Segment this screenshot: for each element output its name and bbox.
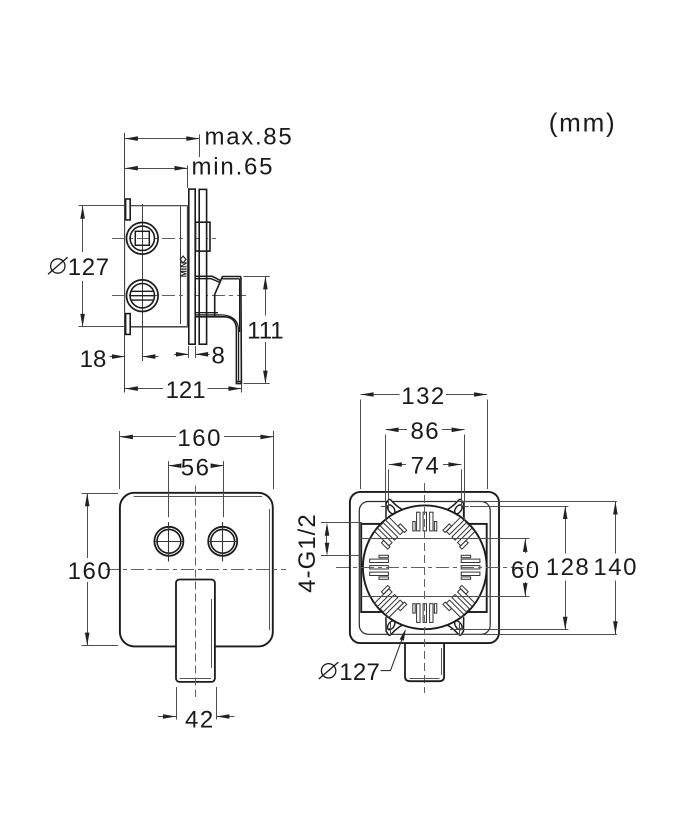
svg-text:121: 121 [166,377,206,404]
svg-text:160: 160 [177,425,222,452]
svg-text:127: 127 [339,659,380,686]
svg-text:128: 128 [546,554,591,581]
svg-text:min.65: min.65 [192,153,275,180]
svg-text:max.85: max.85 [205,123,294,150]
svg-text:4-G1/2: 4-G1/2 [294,513,321,592]
svg-text:74: 74 [411,453,441,480]
svg-text:132: 132 [401,383,446,410]
svg-text:(mm): (mm) [549,107,617,137]
svg-text:86: 86 [410,418,440,445]
svg-text:8: 8 [212,343,225,370]
svg-text:160: 160 [68,558,113,585]
svg-text:111: 111 [247,318,283,345]
svg-text:140: 140 [593,554,638,581]
svg-text:MIN: MIN [178,262,188,278]
svg-text:56: 56 [181,454,211,481]
svg-text:127: 127 [68,254,110,281]
svg-text:60: 60 [511,557,541,584]
svg-text:18: 18 [80,346,107,373]
svg-text:42: 42 [185,707,215,734]
